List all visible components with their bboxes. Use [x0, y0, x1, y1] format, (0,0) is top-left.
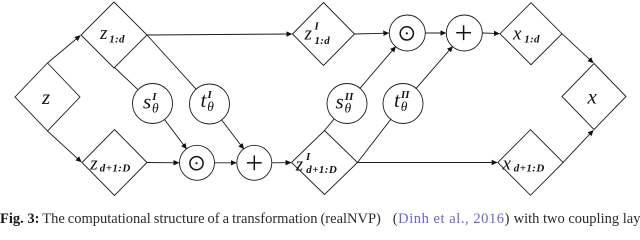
wire z^I_d+1:D to x_d+1:D — [358, 162, 498, 164]
odot symbol top — [400, 27, 413, 40]
svg-text:d+1:D: d+1:D — [100, 163, 131, 175]
wire z^I_d+1:D to t^II — [358, 119, 391, 162]
svg-text:I: I — [314, 21, 320, 33]
wire z^I_d+1:D to s^II — [325, 119, 335, 131]
function node s^II_theta (circle) — [327, 84, 367, 124]
node x_d+1:D (diamond) — [498, 130, 563, 196]
wire s^II to odot (top) — [360, 47, 396, 89]
node x_1:d (diamond) — [500, 3, 562, 65]
svg-text:z: z — [41, 85, 50, 109]
node z (diamond) — [15, 63, 80, 131]
wire plus to x_1:d — [482, 32, 499, 35]
wire z to z_d+1:D — [48, 131, 82, 162]
function node t^II_theta (circle) — [383, 84, 423, 124]
operator node odot top (circle) — [389, 15, 425, 51]
wire z_d+1:D to odot (bottom) — [147, 162, 179, 164]
plus symbol bottom — [247, 155, 262, 170]
svg-text:s: s — [143, 90, 151, 114]
wire z_1:d to t^I — [147, 35, 196, 89]
operator node plus bottom (circle) — [237, 145, 272, 180]
odot symbol bottom — [190, 157, 203, 170]
svg-text:x: x — [587, 85, 598, 109]
node x (diamond) — [562, 64, 626, 130]
svg-text:z: z — [295, 154, 304, 175]
function node t^I_theta (circle) — [190, 84, 230, 124]
wire odot to plus (bottom) — [215, 162, 237, 164]
svg-text:θ: θ — [207, 99, 214, 114]
node z_d+1:D (diamond) — [82, 130, 147, 196]
wire s^I to odot (bottom) — [165, 120, 187, 149]
svg-text:s: s — [336, 90, 344, 114]
node z^I_1:d (diamond) — [293, 3, 355, 66]
wire z_1:d to s^I — [114, 67, 138, 90]
svg-text:1:d: 1:d — [315, 35, 331, 47]
operator node odot bottom (circle) — [180, 145, 215, 180]
wire x_d+1:D to x — [563, 130, 593, 162]
node z_1:d (diamond) — [81, 2, 147, 68]
svg-text:1:d: 1:d — [109, 33, 125, 45]
wire x_1:d to x — [562, 34, 593, 63]
wire odot to plus (top) — [425, 32, 445, 34]
svg-text:d+1:D: d+1:D — [306, 164, 337, 176]
wire t^I to plus (bottom) — [222, 120, 244, 149]
wire z to z_1:d — [48, 36, 81, 63]
svg-text:z: z — [99, 23, 108, 44]
wire t^II to plus (top) — [416, 47, 452, 89]
operator node plus top (circle) — [446, 15, 482, 51]
svg-text:θ: θ — [401, 99, 408, 114]
svg-text:x: x — [502, 153, 512, 174]
svg-text:z: z — [89, 153, 98, 174]
plus symbol top — [456, 25, 471, 40]
wire z_1:d to z^I_1:d — [147, 34, 292, 35]
svg-text:θ: θ — [152, 101, 159, 116]
svg-text:z: z — [304, 24, 313, 45]
node z^I_d+1:D (diamond) — [292, 131, 358, 195]
wire plus to z^I_d+1:D — [272, 162, 291, 164]
svg-text:1:d: 1:d — [524, 33, 540, 45]
svg-text:x: x — [512, 23, 522, 44]
svg-text:d+1:D: d+1:D — [514, 163, 545, 175]
function node s^I_theta (circle) — [133, 84, 173, 124]
svg-text:I: I — [305, 151, 311, 163]
caption (cut off at bottom edge) — [0, 212, 640, 227]
wire z^I_1:d to odot (top) — [355, 32, 389, 35]
svg-text:θ: θ — [345, 101, 352, 116]
